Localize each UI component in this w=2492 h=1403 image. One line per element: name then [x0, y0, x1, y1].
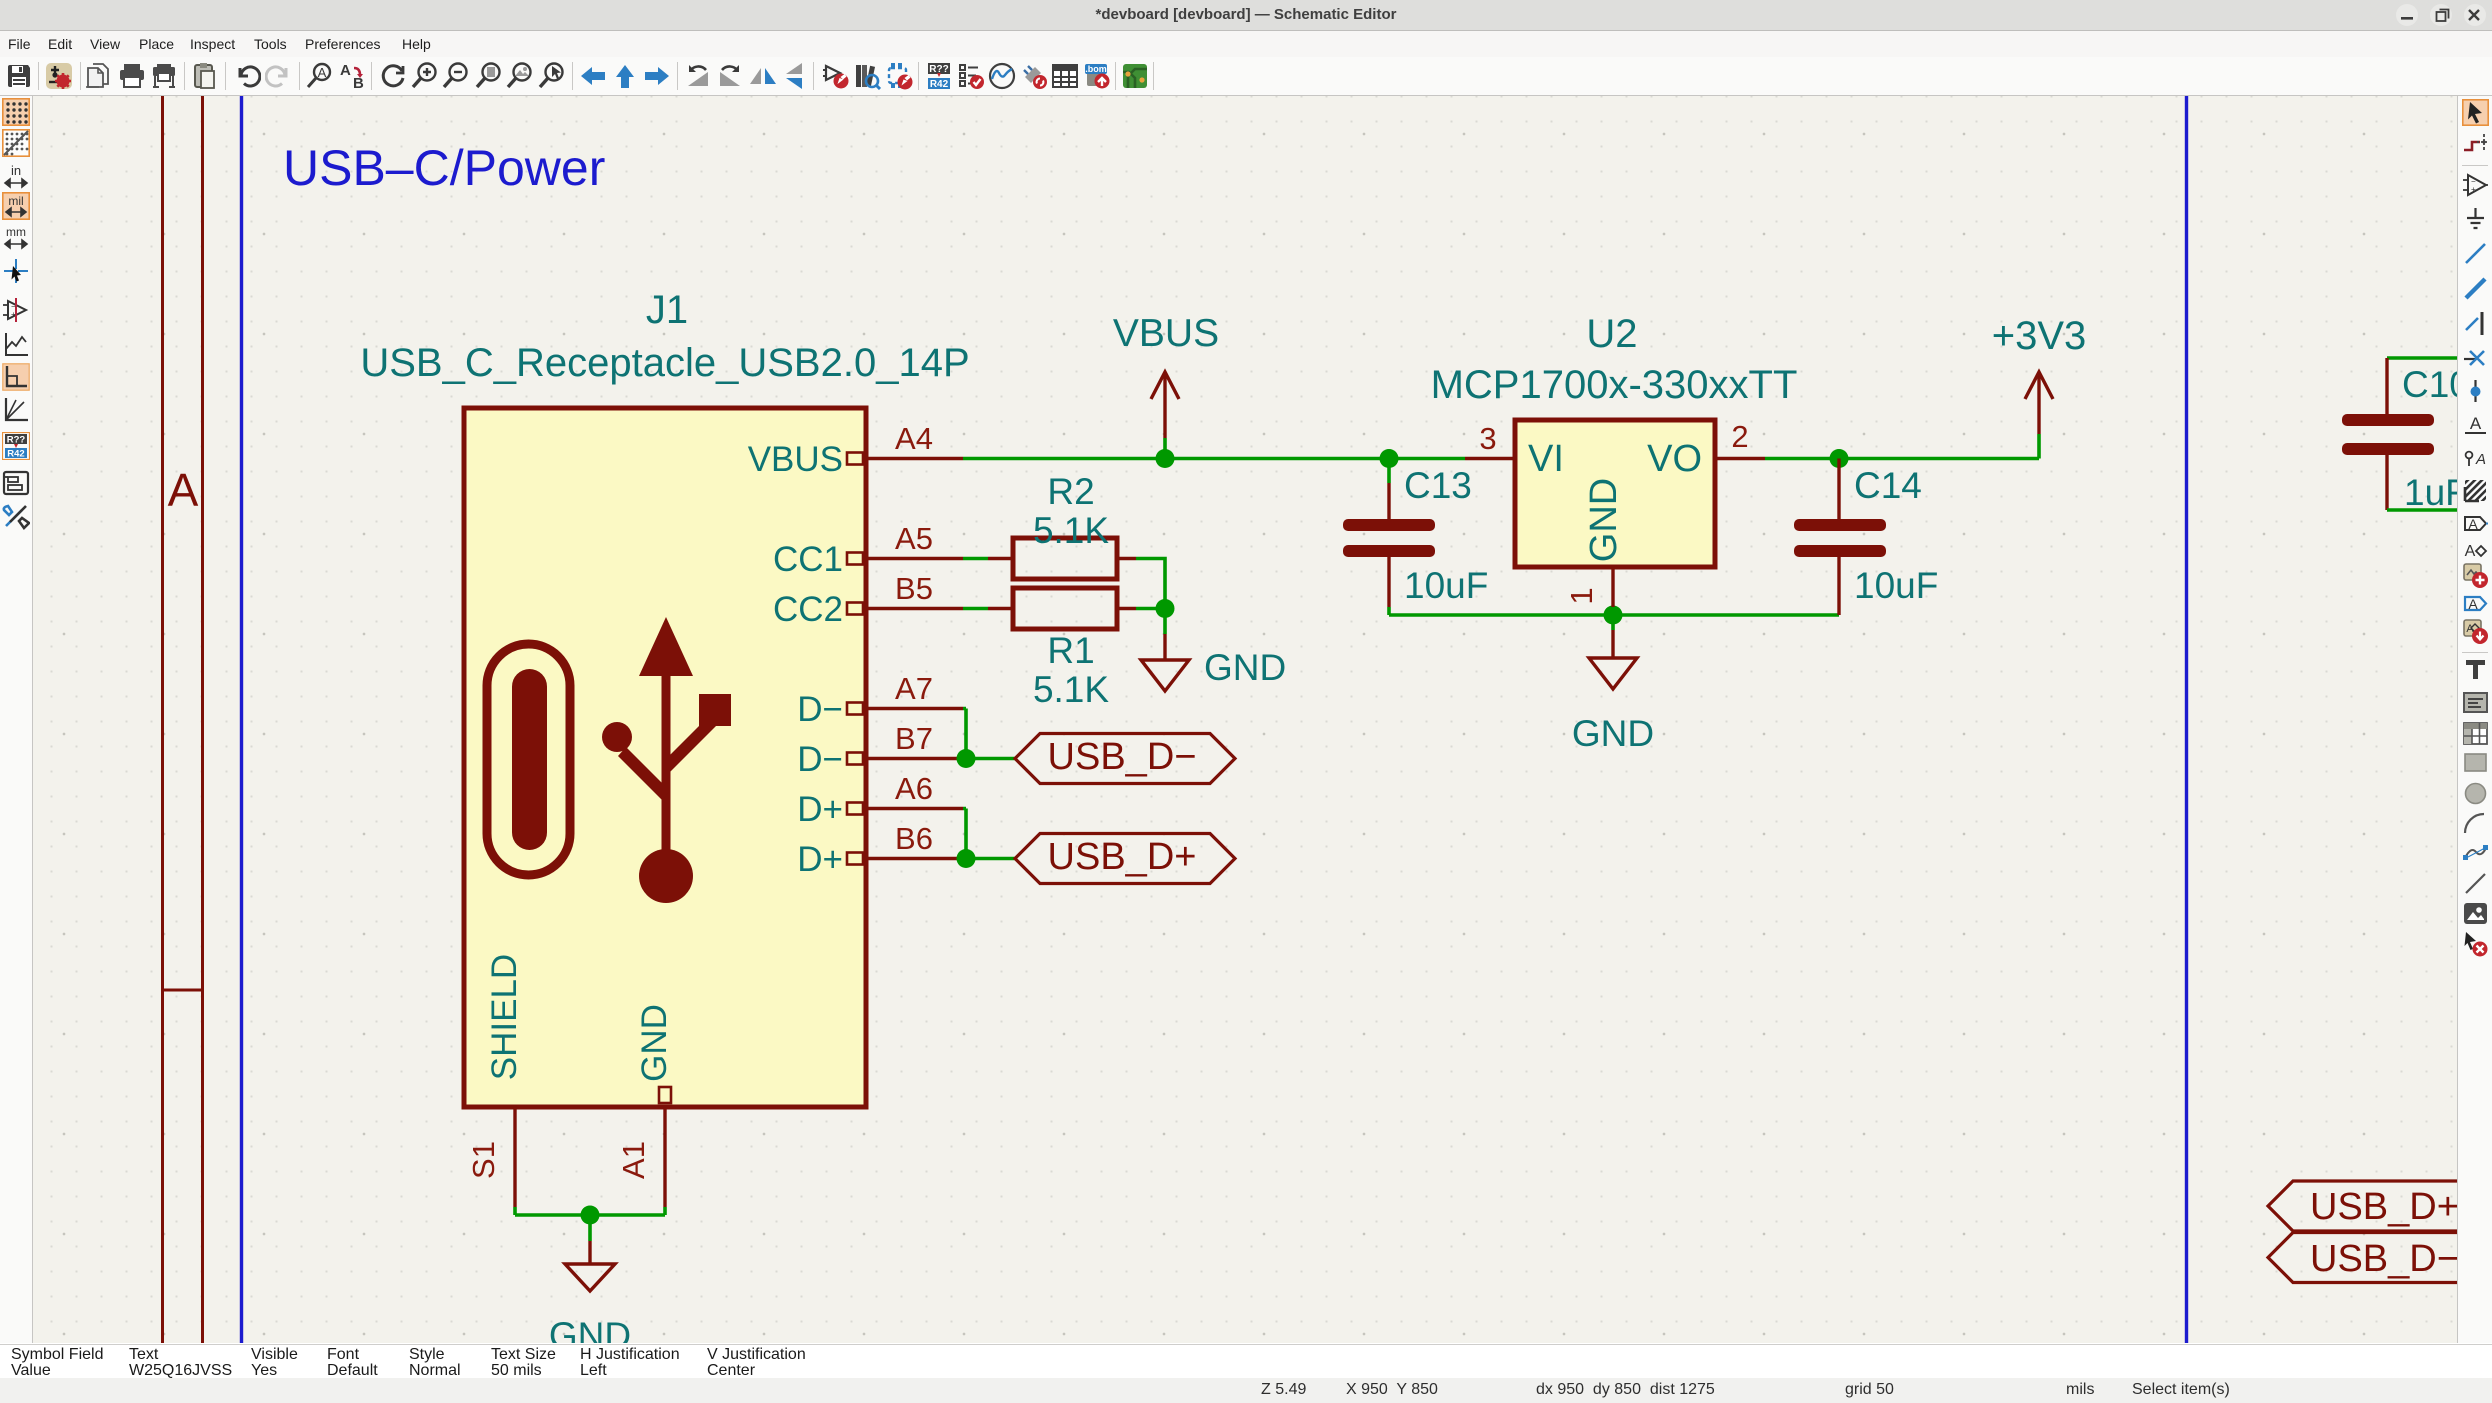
capacitor C14: [1794, 459, 1938, 616]
svg-text:10uF: 10uF: [1854, 565, 1938, 606]
svg-text:CC2: CC2: [773, 590, 843, 629]
svg-text:U2: U2: [1586, 312, 1637, 356]
svg-text:CC1: CC1: [773, 540, 843, 579]
svg-text:GND: GND: [549, 1315, 631, 1343]
wire GND rail C13 to C14: [1389, 613, 1839, 617]
svg-text:MCP1700x-330xxTT: MCP1700x-330xxTT: [1431, 363, 1798, 407]
J1 pin B7 D-: [797, 721, 963, 779]
wire C13 pin stubs: [1387, 459, 1391, 616]
svg-text:R1: R1: [1047, 630, 1094, 671]
rotate cw: [716, 62, 744, 90]
simulator: [988, 62, 1016, 90]
svg-text:VO: VO: [1647, 438, 1702, 480]
power symbol +3V3: [1992, 314, 2087, 434]
global label USB_D- bottom right: [2268, 1233, 2492, 1283]
svg-text:VBUS: VBUS: [1113, 312, 1219, 355]
svg-text:A6: A6: [895, 771, 933, 806]
svg-text:A: A: [2475, 451, 2486, 468]
refresh: [379, 62, 407, 90]
J1 USB trident glyph: [602, 617, 731, 903]
svg-text:C14: C14: [1854, 465, 1922, 506]
capacitor C13: [1343, 465, 1488, 607]
ground symbol GND below J1: [549, 1241, 631, 1356]
J1 pin B6 D+: [797, 821, 963, 879]
svg-text:3: 3: [1479, 421, 1496, 456]
svg-text:USB_D+: USB_D+: [2310, 1186, 2457, 1228]
wire VBUS net from J1.A4 to U2.VI: [963, 457, 1465, 461]
bottom status row: [0, 1378, 2492, 1403]
svg-text:in: in: [11, 163, 21, 178]
U2 pin 2 VO: [1647, 419, 1765, 480]
connector J1 body: [464, 408, 866, 1107]
svg-text:GND: GND: [1583, 478, 1625, 562]
zoom out: [442, 62, 470, 90]
svg-text:R2: R2: [1047, 471, 1094, 512]
svg-text:5.1K: 5.1K: [1033, 669, 1109, 710]
svg-text:USB–C/Power: USB–C/Power: [283, 140, 605, 196]
window title bar: [0, 0, 2492, 31]
sheet frame left border column: [163, 96, 203, 1343]
assign footprints: [1020, 62, 1048, 90]
svg-text:A: A: [168, 464, 199, 516]
svg-text:GND: GND: [1572, 713, 1654, 754]
global label USB_D-: [1015, 734, 1235, 784]
zoom in: [411, 62, 439, 90]
svg-text:A7: A7: [895, 671, 933, 706]
undo: [233, 62, 261, 90]
wire bottom right from C10: [2387, 508, 2470, 512]
find replace: [338, 62, 366, 90]
rotate ccw: [684, 62, 712, 90]
capacitor C10: [2342, 358, 2470, 513]
svg-text:A5: A5: [895, 521, 933, 556]
J1 pin A1 GND: [616, 1004, 674, 1207]
svg-text:A: A: [2465, 543, 2476, 560]
svg-text:1: 1: [1564, 587, 1599, 604]
svg-text:D−: D−: [797, 740, 843, 779]
svg-text:A: A: [2468, 596, 2478, 612]
edit symbol fields: [885, 62, 913, 90]
U2 pin 3 VI: [1465, 421, 1564, 480]
symbol fields table: [1051, 62, 1079, 90]
menu bar: [0, 31, 2492, 57]
J1 pin A7 D-: [797, 671, 963, 729]
power symbol VBUS: [1113, 312, 1219, 459]
wire A6 down to B6: [963, 809, 966, 859]
svg-text:B6: B6: [895, 821, 933, 856]
svg-text:R42: R42: [930, 79, 949, 90]
J1 pin B5 CC2: [773, 571, 963, 629]
U2 pin 1 GND: [1564, 478, 1625, 607]
junction at R1 right: [1156, 599, 1175, 618]
J1 USB-C receptacle glyph: [487, 644, 570, 875]
svg-text:mm: mm: [6, 225, 26, 239]
left toolbar: [0, 96, 33, 1343]
junction at U2 GND: [1604, 606, 1623, 625]
save: [5, 62, 33, 90]
wire S1/A1 to ground: [515, 1207, 665, 1241]
svg-text:VBUS: VBUS: [748, 440, 843, 479]
svg-text:+: +: [2471, 185, 2476, 194]
ground symbol GND below U2: [1572, 630, 1654, 754]
plot: [150, 62, 178, 90]
annotate: [925, 62, 953, 90]
mirror v: [780, 62, 808, 90]
browse libraries: [853, 62, 881, 90]
J1 pin A4 VBUS: [748, 421, 963, 479]
J1 pin A5 CC1: [773, 521, 963, 579]
svg-text:USB_D−: USB_D−: [1048, 736, 1197, 778]
svg-text:USB_C_Receptacle_USB2.0_14P: USB_C_Receptacle_USB2.0_14P: [360, 341, 969, 385]
print: [118, 62, 146, 90]
svg-text:R??: R??: [7, 435, 26, 446]
J1 pin S1 SHIELD: [466, 954, 524, 1207]
resistor R1: [988, 588, 1136, 710]
open pcb: [1121, 62, 1149, 90]
svg-text:A4: A4: [895, 421, 933, 456]
zoom to objects: [506, 62, 534, 90]
wire B6 to USB_D+ label: [963, 857, 1015, 861]
right toolbar: [2457, 96, 2492, 1343]
svg-text:SHIELD: SHIELD: [485, 954, 524, 1080]
global label USB_D+ bottom right: [2268, 1181, 2492, 1231]
new page / copy: [84, 62, 112, 90]
svg-text:B: B: [353, 75, 364, 90]
top toolbar: [0, 57, 2492, 96]
svg-text:+: +: [11, 310, 16, 319]
junction at C14 top: [1830, 449, 1849, 468]
paste: [191, 62, 219, 90]
svg-text:2: 2: [1731, 419, 1748, 454]
svg-text:A: A: [2470, 414, 2482, 433]
global label USB_D+: [1015, 834, 1235, 884]
symbol library settings: [45, 62, 73, 90]
wire top right to C10: [2387, 356, 2470, 360]
wire CC1 to R2: [963, 557, 988, 561]
svg-text:A: A: [340, 62, 351, 79]
wire U2 GND pin stub: [1611, 607, 1615, 630]
nav up: [611, 62, 639, 90]
junction at C13 top: [1380, 449, 1399, 468]
svg-text:+3V3: +3V3: [1992, 314, 2087, 358]
svg-text:A: A: [2468, 516, 2478, 532]
zoom to fit: [475, 62, 503, 90]
find: [306, 62, 334, 90]
redo: [265, 62, 293, 90]
svg-text:.bom: .bom: [1085, 64, 1107, 74]
svg-text:D+: D+: [797, 790, 843, 829]
svg-text:10uF: 10uF: [1404, 565, 1488, 606]
wire R2 right to R1 right: [1136, 559, 1165, 635]
wire B7 to USB_D- label: [963, 757, 1015, 761]
regulator U2 body: [1431, 312, 1798, 567]
svg-text:B7: B7: [895, 721, 933, 756]
svg-text:USB_D−: USB_D−: [2310, 1238, 2457, 1280]
ground symbol GND at R1/R2: [1141, 634, 1286, 691]
svg-text:VI: VI: [1528, 438, 1564, 480]
bom: [1083, 62, 1111, 90]
svg-text:mil: mil: [8, 194, 23, 208]
nav left: [579, 62, 607, 90]
junction at VBUS power symbol: [1156, 449, 1175, 468]
junction below J1: [581, 1206, 600, 1225]
svg-text:D−: D−: [797, 690, 843, 729]
wire CC2 to R1: [963, 607, 988, 611]
svg-text:USB_D+: USB_D+: [1048, 836, 1197, 878]
svg-text:A1: A1: [616, 1141, 651, 1179]
erc: [957, 62, 985, 90]
resistor R2: [988, 471, 1136, 579]
svg-text:GND: GND: [635, 1004, 674, 1082]
junction at B7: [957, 749, 976, 768]
svg-text:J1: J1: [646, 288, 688, 332]
zoom selection: [538, 62, 566, 90]
properties status bar: [0, 1344, 2492, 1378]
svg-text:R42: R42: [7, 449, 24, 460]
J1 pin A6 D+: [797, 771, 963, 829]
svg-text:5.1K: 5.1K: [1033, 510, 1109, 551]
edit symbol: [822, 62, 850, 90]
wire VO to 3V3: [1765, 434, 2039, 459]
wire A7 down to B7: [963, 709, 966, 759]
junction at B6: [957, 849, 976, 868]
page limit blue line right: [2185, 96, 2188, 1343]
svg-text:C10: C10: [2402, 364, 2457, 405]
page limit blue line left: [240, 96, 243, 1343]
svg-text:A: A: [318, 65, 327, 80]
svg-text:D+: D+: [797, 840, 843, 879]
svg-text:C13: C13: [1404, 465, 1472, 506]
svg-text:B5: B5: [895, 571, 933, 606]
svg-text:S1: S1: [466, 1141, 501, 1179]
svg-text:GND: GND: [1204, 647, 1286, 688]
svg-text:1uF: 1uF: [2404, 472, 2457, 513]
mirror h: [749, 62, 777, 90]
nav right: [643, 62, 671, 90]
